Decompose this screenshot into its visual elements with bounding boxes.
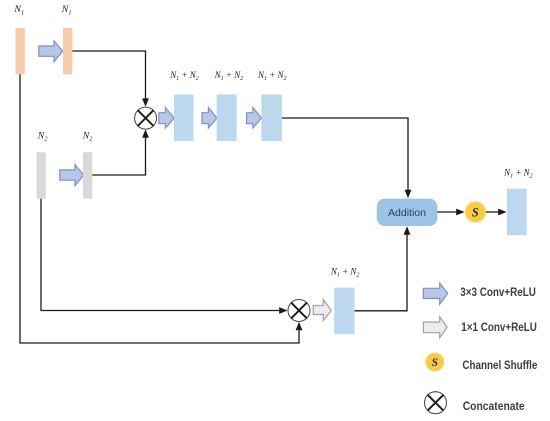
label N1+N2 above bar1 [169, 70, 199, 82]
concat circle X1 [135, 107, 157, 129]
wire bar3 to Addition (top) [282, 118, 412, 198]
svg-text:Channel Shuffle: Channel Shuffle [462, 358, 537, 372]
conv arrow into bar3 [247, 108, 262, 128]
svg-text:Concatenate: Concatenate [463, 399, 525, 413]
wire Addition to S [437, 209, 464, 216]
wire N2-B to concat X1 [92, 129, 149, 175]
wire bar4 to Addition (bottom) [355, 226, 411, 310]
svg-text:N2: N2 [37, 130, 48, 142]
wire N1-B to concat X1 [72, 51, 149, 107]
conv arrow into bar1 [159, 108, 174, 128]
label N2 (above gray bar A) [37, 130, 48, 142]
feature bar N2-B (gray) [83, 152, 92, 198]
legend arrow 3x3 conv [423, 283, 447, 304]
svg-text:N2: N2 [82, 130, 93, 142]
feature bar3 (blue) [261, 95, 282, 142]
label N1+N2 above output bar [503, 167, 533, 179]
svg-text:N1 + N2: N1 + N2 [503, 167, 533, 179]
legend concat node [425, 392, 447, 414]
svg-text:S: S [432, 357, 438, 369]
wire S to output bar [486, 209, 507, 216]
legend arrow 1x1 conv [423, 317, 447, 338]
svg-text:N1 + N2: N1 + N2 [214, 70, 244, 82]
svg-text:N1 + N2: N1 + N2 [330, 266, 360, 278]
svg-text:N1 + N2: N1 + N2 [257, 70, 287, 82]
wire N1 input to concat X2 (bottom long path) [20, 74, 302, 343]
label N1+N2 above bar3 [257, 70, 287, 82]
feature bar2 (blue) [217, 95, 237, 142]
label N2 (above gray bar B) [82, 130, 93, 142]
feature bar1 (blue) [174, 95, 194, 142]
label N1+N2 above bar4 [330, 266, 360, 278]
label N1 (above bar B) [61, 4, 72, 16]
label N1+N2 above bar2 [214, 70, 244, 82]
conv arrow into bar2 [202, 108, 217, 128]
feature bar N1-B (orange) [63, 28, 72, 74]
input bar N1-A (orange) [16, 28, 25, 74]
channel shuffle S node [464, 201, 487, 224]
Addition box [377, 199, 438, 226]
svg-text:S: S [472, 206, 479, 220]
wire N2 input to concat X2 (left) [41, 199, 288, 314]
legend text 1x1 conv [461, 320, 537, 334]
svg-text:3×3 Conv+ReLU: 3×3 Conv+ReLU [460, 285, 536, 299]
output bar (blue) [507, 189, 527, 236]
feature bar4 (blue, bottom path) [334, 288, 354, 335]
svg-text:N1: N1 [61, 4, 72, 16]
svg-text:Addition: Addition [388, 208, 426, 219]
conv arrow 3x3 (gray row) [60, 165, 84, 186]
svg-text:1×1 Conv+ReLU: 1×1 Conv+ReLU [461, 320, 537, 334]
legend S node [425, 352, 445, 372]
concat circle X2 [288, 300, 310, 322]
conv arrow 1x1 (gray block arrow) [313, 300, 331, 321]
label N1 (above input bar A) [13, 4, 24, 16]
svg-text:N1 + N2: N1 + N2 [169, 70, 199, 82]
conv arrow 3x3 (orange row) [39, 41, 63, 62]
svg-text:N1: N1 [13, 4, 24, 16]
input bar N2-A (gray) [37, 152, 46, 198]
legend text 3x3 conv [460, 285, 536, 299]
legend text channel shuffle [462, 358, 537, 372]
legend text concatenate [463, 399, 525, 413]
